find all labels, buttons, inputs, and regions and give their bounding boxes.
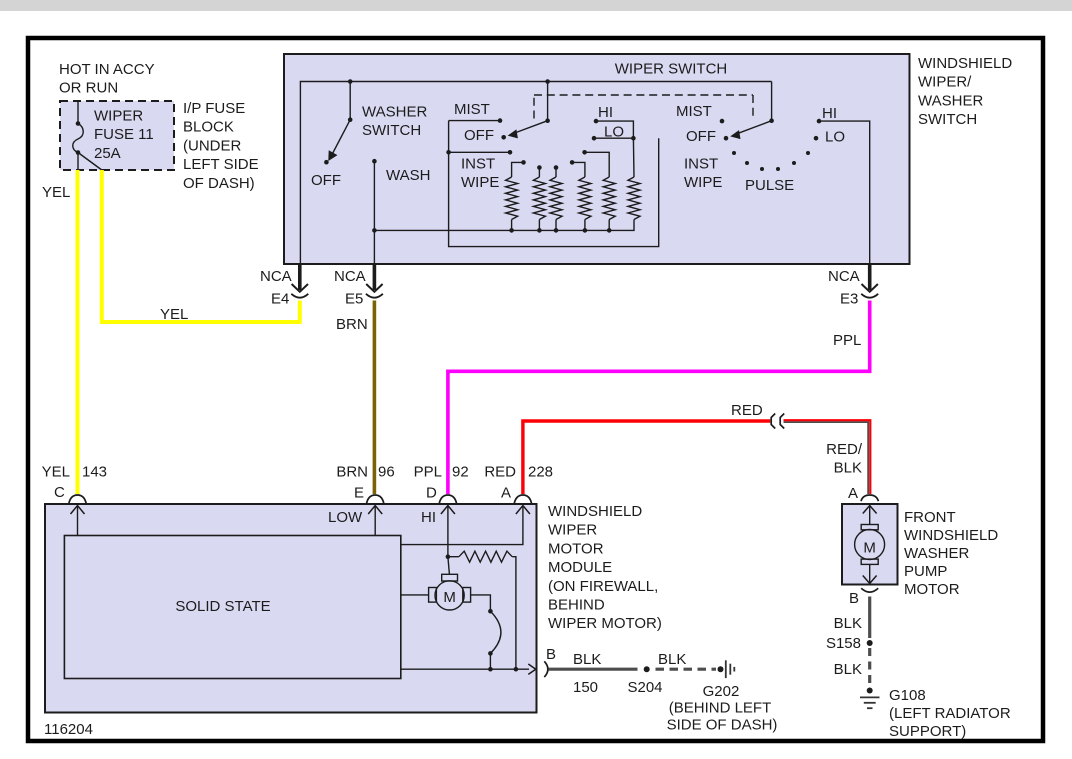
module name label <box>548 503 662 632</box>
svg-text:WIPE: WIPE <box>684 174 722 191</box>
left INST WIPE contact <box>446 121 658 247</box>
svg-text:HI: HI <box>822 105 837 122</box>
svg-text:(UNDER: (UNDER <box>183 137 241 154</box>
svg-text:OFF: OFF <box>464 127 494 144</box>
I/P fuse block label <box>183 100 259 192</box>
svg-text:WIPER: WIPER <box>548 522 597 539</box>
fuse labels <box>94 108 154 162</box>
wire: BLK from washer pump B to S158 <box>868 597 871 639</box>
svg-text:NCA: NCA <box>260 268 292 285</box>
svg-text:M: M <box>443 589 456 606</box>
svg-text:A: A <box>501 485 511 502</box>
svg-text:B: B <box>546 646 556 663</box>
washer pump motor M2 <box>855 506 885 584</box>
svg-text:BLK: BLK <box>573 651 601 668</box>
wiper switch box <box>284 54 910 264</box>
svg-text:PULSE: PULSE <box>745 177 794 194</box>
svg-text:INST: INST <box>461 156 495 173</box>
wire: motor right brush to park switch <box>471 595 491 611</box>
ground G202 <box>667 660 778 733</box>
svg-text:BLK: BLK <box>834 615 862 632</box>
left MIST contact <box>449 101 503 123</box>
wire: PPL from E3 to module pin D <box>448 301 870 495</box>
right HI contact and wire to E3 <box>817 105 870 264</box>
svg-text:RED: RED <box>484 464 516 481</box>
resistor bottom bus wire <box>372 220 634 233</box>
resistor ladder contacts <box>512 138 634 177</box>
resistor in module <box>448 551 516 669</box>
wire: top feed bus inside wiper switch <box>300 82 771 264</box>
park switch contact arc <box>488 609 501 669</box>
svg-text:WIPER MOTOR): WIPER MOTOR) <box>548 615 662 632</box>
washer pump pin B cup <box>849 588 878 607</box>
HOT IN ACCY OR RUN label <box>59 61 155 97</box>
svg-text:I/P FUSE: I/P FUSE <box>183 100 245 117</box>
wire: RED from module pin A to inline connector <box>523 421 770 494</box>
svg-text:B: B <box>849 590 859 607</box>
solid state inner box <box>64 536 400 679</box>
svg-text:WIPER: WIPER <box>94 108 143 125</box>
svg-text:NCA: NCA <box>334 268 366 285</box>
svg-text:OR RUN: OR RUN <box>59 80 118 97</box>
wire: motor left brush to solid state <box>401 594 429 596</box>
connector E3 <box>828 264 878 308</box>
resistor R3 <box>550 177 562 220</box>
label: windshield wiper/washer switch <box>918 55 1012 128</box>
svg-text:D: D <box>426 485 437 502</box>
svg-text:G108: G108 <box>889 687 926 704</box>
svg-text:RED: RED <box>731 402 763 419</box>
wire: BRN from E5 to module pin E <box>373 301 377 495</box>
svg-text:HI: HI <box>421 509 436 526</box>
svg-text:YEL: YEL <box>160 306 188 323</box>
splice S158 <box>867 640 873 646</box>
svg-text:116204: 116204 <box>44 721 93 738</box>
label BLK / 150 <box>573 651 601 696</box>
svg-text:OFF: OFF <box>311 172 341 189</box>
right wiper switch arm <box>730 82 774 140</box>
svg-text:OF DASH): OF DASH) <box>183 175 255 192</box>
module pin A <box>401 495 532 545</box>
svg-text:96: 96 <box>378 464 395 481</box>
washer pump motor box <box>842 504 898 585</box>
svg-text:WIPER/: WIPER/ <box>918 74 972 91</box>
svg-text:HI: HI <box>598 104 613 121</box>
svg-text:LOW: LOW <box>328 509 363 526</box>
resistor R2 <box>533 177 545 220</box>
svg-text:228: 228 <box>528 464 553 481</box>
svg-text:WIPER SWITCH: WIPER SWITCH <box>615 61 728 78</box>
resistor R5 <box>603 177 615 220</box>
svg-text:WASHER: WASHER <box>904 545 969 562</box>
wire: BLK dashed from S204 to G202 <box>656 668 717 671</box>
right INST WIPE label <box>684 156 722 191</box>
svg-text:WINDSHIELD: WINDSHIELD <box>548 503 642 520</box>
svg-text:NCA: NCA <box>828 268 860 285</box>
svg-text:PUMP: PUMP <box>904 563 947 580</box>
svg-text:92: 92 <box>452 464 469 481</box>
svg-text:(ON FIREWALL,: (ON FIREWALL, <box>548 578 658 595</box>
resistor R6 <box>628 177 640 220</box>
svg-text:150: 150 <box>573 679 598 696</box>
washer switch SW1 <box>311 82 427 190</box>
svg-text:(BEHIND LEFT: (BEHIND LEFT <box>669 700 772 717</box>
module pin value labels <box>42 464 553 502</box>
svg-text:YEL: YEL <box>42 464 70 481</box>
svg-text:MODULE: MODULE <box>548 559 612 576</box>
svg-text:E3: E3 <box>840 291 858 308</box>
svg-text:S158: S158 <box>826 635 861 652</box>
svg-text:PPL: PPL <box>414 464 442 481</box>
svg-text:SWITCH: SWITCH <box>362 122 421 139</box>
svg-text:MIST: MIST <box>676 103 712 120</box>
svg-text:(LEFT RADIATOR: (LEFT RADIATOR <box>889 705 1011 722</box>
svg-text:BLOCK: BLOCK <box>183 119 234 136</box>
svg-text:INST: INST <box>684 156 718 173</box>
right OFF contact <box>686 128 728 145</box>
svg-text:G202: G202 <box>703 683 740 700</box>
wiper motor module box <box>45 504 537 713</box>
svg-text:WINDSHIELD: WINDSHIELD <box>918 55 1012 72</box>
svg-text:LO: LO <box>825 129 845 146</box>
svg-text:SWITCH: SWITCH <box>918 111 977 128</box>
wire: BLK dashed from S158 to G108 <box>868 648 871 686</box>
svg-text:WINDSHIELD: WINDSHIELD <box>904 527 998 544</box>
svg-text:SUPPORT): SUPPORT) <box>889 723 966 740</box>
svg-text:BRN: BRN <box>336 464 368 481</box>
splice S204 <box>644 666 650 672</box>
svg-text:OFF: OFF <box>686 128 716 145</box>
pulse contact arc dots <box>732 151 810 171</box>
right MIST contact <box>676 103 724 123</box>
svg-text:SIDE OF DASH): SIDE OF DASH) <box>667 716 778 733</box>
svg-text:A: A <box>848 485 858 502</box>
wire: BLK from pin B to S204 <box>549 668 638 671</box>
svg-text:143: 143 <box>82 464 107 481</box>
I/P fuse block dashed box <box>60 101 174 170</box>
node: bus tap to washer switch <box>348 79 353 84</box>
svg-text:WASHER: WASHER <box>362 103 427 120</box>
svg-text:MOTOR: MOTOR <box>904 581 960 598</box>
svg-text:FRONT: FRONT <box>904 509 956 526</box>
svg-text:BLK: BLK <box>834 661 862 678</box>
inline connector on RED wire <box>771 414 784 429</box>
wire: RED/BLK from inline connector to washer pump A <box>784 420 871 494</box>
module ground bus to pin B <box>401 664 536 674</box>
module pin E <box>328 495 384 536</box>
washer pump label <box>904 509 998 598</box>
svg-text:MIST: MIST <box>454 101 490 118</box>
svg-text:PPL: PPL <box>833 332 861 349</box>
svg-text:BRN: BRN <box>336 316 368 333</box>
svg-text:SOLID STATE: SOLID STATE <box>175 598 270 615</box>
svg-text:C: C <box>54 484 65 501</box>
module pin B connector cup <box>544 661 548 677</box>
svg-text:BLK: BLK <box>658 651 686 668</box>
module pin D <box>421 495 457 557</box>
svg-text:25A: 25A <box>94 145 121 162</box>
svg-text:YEL: YEL <box>42 184 70 201</box>
label RED/BLK <box>826 441 863 477</box>
middle HI contact <box>594 104 634 138</box>
washer pump connector A cup <box>848 485 878 502</box>
ground G108 <box>860 687 1011 740</box>
svg-text:WIPE: WIPE <box>461 174 499 191</box>
wiper motor M1 <box>429 557 471 610</box>
svg-text:WASH: WASH <box>386 167 430 184</box>
svg-text:FUSE 11: FUSE 11 <box>94 126 154 143</box>
dashed mechanical linkage <box>533 93 535 119</box>
svg-text:S204: S204 <box>627 679 662 696</box>
gray top strip <box>0 0 1072 11</box>
wire: YEL from fuse to connector E4 <box>102 170 300 322</box>
svg-text:E: E <box>354 485 364 502</box>
connector E5 <box>334 264 383 308</box>
resistor R4 <box>579 177 591 220</box>
wire: YEL from fuse to module pin C <box>76 170 80 494</box>
svg-text:WASHER: WASHER <box>918 92 983 109</box>
svg-text:RED/: RED/ <box>826 441 863 458</box>
svg-text:LEFT SIDE: LEFT SIDE <box>183 156 259 173</box>
svg-text:MOTOR: MOTOR <box>548 540 604 557</box>
right LO contact <box>814 129 845 146</box>
module pin C <box>69 495 86 536</box>
wash contact and wire to E5 <box>372 159 430 264</box>
middle LO contact <box>592 123 636 140</box>
connector E4 <box>260 264 308 308</box>
svg-text:E4: E4 <box>271 291 289 308</box>
left OFF contact <box>464 127 506 144</box>
svg-text:HOT IN ACCY: HOT IN ACCY <box>59 61 155 78</box>
node: bus tap to left wiper arm <box>545 79 550 84</box>
svg-text:E5: E5 <box>345 291 363 308</box>
left wiper switch arm <box>508 82 550 139</box>
resistor R1 <box>506 177 518 220</box>
fuse F11 symbol <box>73 101 102 170</box>
node: pin D / resistor junction <box>446 554 451 559</box>
svg-text:BLK: BLK <box>834 460 862 477</box>
svg-text:BEHIND: BEHIND <box>548 597 605 614</box>
svg-text:M: M <box>863 539 876 556</box>
